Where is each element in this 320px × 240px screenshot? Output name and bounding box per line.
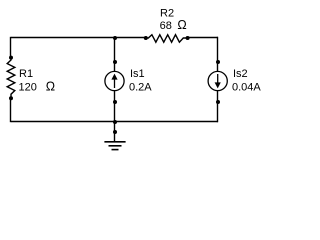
wire left vertical bottom stub (10, 98, 12, 122)
current source Is2 (208, 71, 227, 90)
node dot R2 left (144, 36, 148, 40)
node dot R1 bottom (9, 96, 13, 100)
wire right vertical bottom stub (217, 91, 219, 123)
svg-text:68: 68 (160, 20, 172, 32)
resistor R1 (7, 58, 15, 99)
wire ground stub (114, 122, 116, 142)
node dot R1 top (9, 56, 13, 60)
node dot bottom junction (113, 120, 117, 124)
wire Is1 branch top (114, 38, 116, 72)
node dot Is2 top (216, 60, 220, 64)
resistor R2 (146, 35, 188, 43)
svg-text:R2: R2 (160, 7, 174, 19)
svg-text:120: 120 (19, 82, 37, 94)
node dot Is1 top (113, 60, 117, 64)
wire top-left horizontal (11, 37, 146, 39)
node dot Is2 bottom (216, 100, 220, 104)
wire bottom horizontal (11, 121, 218, 123)
node dot top junction Is1 (113, 36, 117, 40)
svg-text:Ω: Ω (46, 80, 55, 94)
svg-text:0.04A: 0.04A (232, 82, 261, 94)
wire right vertical top stub (217, 37, 219, 72)
node dot R2 right (186, 36, 190, 40)
svg-text:R1: R1 (19, 68, 33, 80)
svg-text:0.2A: 0.2A (129, 82, 152, 94)
node dot Is1 bottom (113, 100, 117, 104)
svg-text:Ω: Ω (177, 18, 186, 32)
wire left vertical top stub (10, 37, 12, 58)
wire Is1 branch bottom (114, 91, 116, 122)
current source Is1 (105, 71, 124, 90)
node dot ground (113, 130, 117, 134)
ground (104, 142, 125, 150)
wire top-right horizontal (188, 37, 218, 39)
svg-text:Is1: Is1 (130, 68, 145, 80)
svg-text:Is2: Is2 (233, 68, 248, 80)
